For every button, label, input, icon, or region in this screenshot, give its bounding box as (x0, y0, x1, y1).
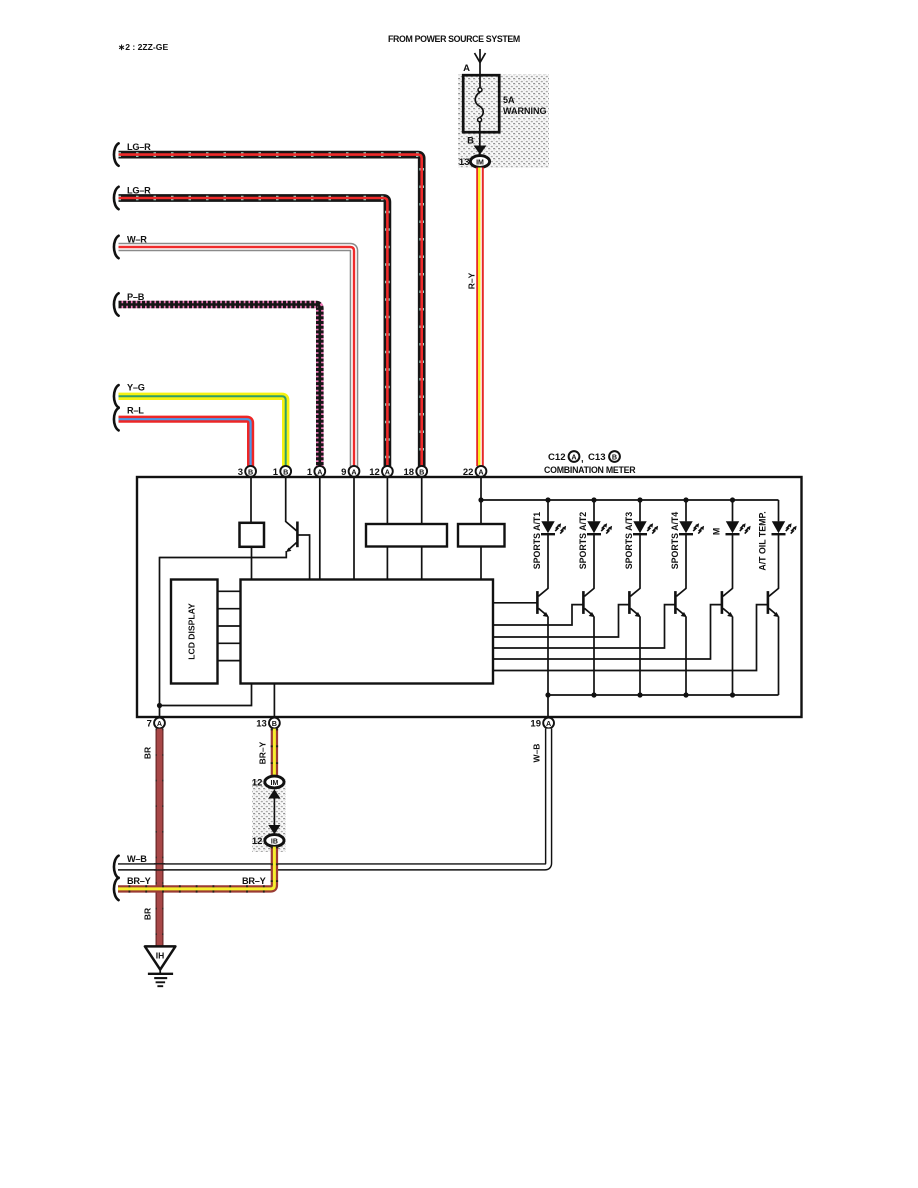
svg-text:LG–R: LG–R (127, 142, 151, 152)
terminal 3 B (245, 466, 256, 477)
svg-text:LCD DISPLAY: LCD DISPLAY (187, 603, 197, 660)
svg-text:M: M (712, 528, 722, 535)
transistor T5 (722, 588, 734, 617)
brace BR-Y (114, 878, 119, 900)
inner wire from 3B to resistor box (250, 477, 252, 523)
main IC box (241, 580, 494, 684)
svg-text:13: 13 (459, 157, 470, 168)
block2 rectangle (458, 524, 505, 547)
svg-text:19: 19 (530, 719, 541, 730)
node dot at 22A branch (478, 497, 483, 502)
svg-text:Y–G: Y–G (127, 383, 145, 393)
svg-text:SPORTS A/T4: SPORTS A/T4 (670, 512, 680, 569)
LED SPORTS A/T2 (587, 521, 612, 534)
terminal 9 A (349, 466, 360, 477)
svg-text:12: 12 (252, 836, 263, 847)
svg-text:13: 13 (256, 719, 267, 730)
base wire T5 (493, 605, 721, 659)
LED column 3 (639, 500, 641, 521)
base wire T2 (493, 605, 583, 625)
wire LG-R (to 18B) (119, 155, 422, 466)
combination meter box outline (137, 477, 802, 717)
terminal 13 B (bottom) (269, 718, 280, 729)
terminal 1 B (280, 466, 291, 477)
wires block1 to IC (386, 547, 388, 581)
svg-text:A: A (478, 467, 483, 476)
base wire T4 (493, 605, 675, 648)
wire IC to 13B (273, 683, 275, 717)
connector IM (12) (265, 776, 284, 788)
LED column 5 (732, 500, 734, 521)
fuse element (478, 88, 482, 92)
svg-text:∗2 : 2ZZ-GE: ∗2 : 2ZZ-GE (118, 42, 168, 52)
wire resistor to main IC box (251, 547, 253, 580)
svg-text:C12: C12 (548, 452, 566, 463)
svg-text:W–R: W–R (127, 234, 147, 244)
svg-text:BR–Y: BR–Y (127, 876, 151, 886)
transistor T6 (768, 588, 780, 617)
LED A/T OIL TEMP. (772, 521, 797, 534)
svg-text:BR: BR (143, 747, 153, 759)
svg-text:B: B (612, 453, 617, 462)
wire P-B (to 1A) (119, 305, 320, 467)
LED column 2 (593, 500, 595, 521)
svg-text:W–B: W–B (127, 854, 147, 864)
svg-text:B: B (467, 136, 474, 147)
svg-text:LG–R: LG–R (127, 185, 151, 195)
brace W-B (114, 856, 119, 878)
svg-text:IM: IM (271, 780, 279, 787)
wire from junction to main IC box bottom (160, 683, 252, 706)
transistor T4 (675, 588, 687, 617)
block1 rectangle (366, 524, 447, 547)
svg-text:SPORTS A/T2: SPORTS A/T2 (578, 512, 588, 569)
wire Y-G (to 1B) (119, 396, 286, 466)
svg-text:A/T OIL TEMP.: A/T OIL TEMP. (758, 511, 768, 570)
svg-text:B: B (272, 719, 277, 728)
connector IB (12) (265, 835, 284, 847)
svg-text:WARNING: WARNING (503, 106, 547, 116)
brace (114, 293, 119, 315)
base wire T3 (493, 605, 629, 637)
LED column 6 (778, 500, 780, 521)
base wire T1 (493, 602, 537, 604)
emitter common bus (548, 694, 779, 696)
svg-text:B: B (419, 467, 424, 476)
filled arrowhead into IM (474, 146, 487, 155)
svg-text:9: 9 (341, 467, 346, 478)
svg-text:R–Y: R–Y (467, 272, 477, 289)
brace (114, 408, 119, 430)
svg-text:IM: IM (476, 159, 484, 166)
svg-text:5A: 5A (503, 95, 515, 105)
svg-text:22: 22 (463, 467, 474, 478)
svg-text:A: A (546, 719, 551, 728)
terminal 22 A (476, 466, 487, 477)
svg-text:B: B (283, 467, 288, 476)
connector IM (13) (470, 156, 489, 168)
svg-text:A: A (351, 467, 356, 476)
LED SPORTS A/T4 (679, 521, 704, 534)
svg-text:3: 3 (238, 467, 243, 478)
open arrowhead (475, 53, 486, 63)
LCD DISPLAY box (171, 580, 218, 684)
svg-text:A: A (157, 719, 162, 728)
svg-text:7: 7 (147, 719, 152, 730)
svg-text:IB: IB (271, 838, 278, 845)
junction arrows between IM and IB (273, 794, 275, 829)
inner wire 1A to IC (319, 477, 321, 580)
inner wire 18B to block1 (421, 477, 423, 524)
svg-text:BR–Y: BR–Y (258, 741, 268, 764)
wire fuse to IM (479, 122, 481, 157)
transistor T2 (583, 588, 595, 617)
svg-text:A: A (317, 467, 322, 476)
LED column 4 (685, 500, 687, 521)
W-B edge lines over BR crossing (154, 863, 165, 865)
terminal 18 B (416, 466, 427, 477)
svg-text:P–B: P–B (127, 292, 145, 302)
LCD to IC connection wires (218, 590, 241, 592)
LED SPORTS A/T1 (541, 521, 566, 534)
wire Q1 base to main IC box (309, 534, 311, 580)
svg-text:18: 18 (404, 467, 415, 478)
wire bus to 19A (547, 695, 549, 717)
terminal 1 A (314, 466, 325, 477)
svg-text:12: 12 (252, 778, 263, 789)
terminal 19 A (bottom) (543, 718, 554, 729)
wire R-L (to 3B) (119, 419, 251, 466)
transistor T1 (537, 588, 549, 617)
LED SPORTS A/T3 (633, 521, 658, 534)
svg-text:1: 1 (273, 467, 279, 478)
svg-text:SPORTS A/T1: SPORTS A/T1 (532, 512, 542, 569)
stipple background around IM-IB junction (252, 779, 286, 852)
brace (114, 236, 119, 258)
brace (114, 187, 119, 209)
svg-text:A: A (463, 63, 470, 74)
resistor box (240, 523, 265, 547)
svg-text:BR: BR (143, 908, 153, 920)
brace (114, 385, 119, 407)
fuse 5A WARNING box (463, 75, 499, 132)
wire from power source (vertical feed) (479, 49, 481, 90)
wire R-Y from IM to terminal 22A (475, 168, 483, 467)
wire LG-R (to 12A) (119, 198, 388, 466)
ground IH (145, 946, 176, 986)
transistor T3 (629, 588, 641, 617)
junction dot (157, 703, 162, 708)
inner wire 22A down to block2 (480, 477, 482, 524)
svg-text:A: A (385, 467, 390, 476)
stipple background around fuse (458, 74, 549, 168)
svg-text:SPORTS A/T3: SPORTS A/T3 (624, 512, 634, 569)
wire Q1 emitter left and down to 7A (160, 551, 287, 558)
svg-text:IH: IH (156, 951, 165, 961)
inner wire from 1B to transistor Q1 (285, 477, 287, 522)
wire BR-Y from 13B to IM (271, 729, 278, 777)
svg-text:C13: C13 (588, 452, 606, 463)
svg-text:1: 1 (307, 467, 313, 478)
LED supply bus from 22A (481, 499, 779, 501)
svg-text:COMBINATION METER: COMBINATION METER (544, 465, 636, 475)
base wire T6 (493, 605, 767, 671)
terminal 12 A (382, 466, 393, 477)
svg-text:12: 12 (369, 467, 380, 478)
LED M (726, 521, 751, 534)
inner wire 9A to IC (353, 477, 355, 580)
wire BR-Y from IB down and left (118, 847, 274, 889)
wire block2 to IC (480, 547, 482, 581)
brace (114, 143, 119, 165)
transistor Q1 (mirrored) (286, 522, 310, 553)
terminal 7 A (bottom) (154, 718, 165, 729)
wire W-R (to 9A) (119, 247, 355, 466)
LED column 1 (547, 500, 549, 521)
wire BR from 7A down to ground (156, 729, 164, 947)
wire W-B from 19A down and left (118, 729, 549, 867)
svg-text:B: B (248, 467, 253, 476)
svg-text:A: A (571, 453, 576, 462)
inner wire 12A to block1 (386, 477, 388, 524)
svg-text:R–L: R–L (127, 406, 144, 416)
svg-text:FROM POWER SOURCE SYSTEM: FROM POWER SOURCE SYSTEM (388, 34, 520, 44)
svg-text:BR–Y: BR–Y (242, 876, 266, 886)
svg-text:,: , (581, 454, 584, 465)
svg-text:W–B: W–B (532, 744, 542, 763)
